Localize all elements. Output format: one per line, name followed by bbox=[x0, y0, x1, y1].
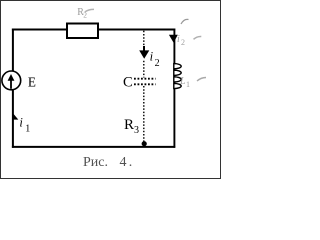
wire bottom bbox=[12, 146, 175, 148]
svg-text:2: 2 bbox=[155, 58, 160, 69]
inductor L (4 half-ellipse bumps on right wire) bbox=[174, 64, 181, 89]
wire left bbox=[12, 29, 14, 148]
svg-text:E: E bbox=[28, 75, 36, 90]
wire branch: dotted segment between i2 arrow and capacitor bbox=[143, 61, 145, 78]
svg-text:3: 3 bbox=[134, 125, 139, 136]
current arrow i1 (on left wire, pointing down) bbox=[13, 114, 18, 120]
annotation curve far top-right bbox=[181, 19, 189, 24]
label i1 bbox=[19, 116, 30, 135]
junction dot (branch meets bottom wire) bbox=[142, 141, 147, 146]
annotation i3 label (faint, right of arrow) bbox=[177, 34, 185, 47]
svg-text:2: 2 bbox=[181, 38, 185, 47]
label i2 bbox=[150, 50, 160, 69]
wire right (inductor branch) bbox=[173, 29, 175, 148]
svg-text:R: R bbox=[124, 117, 134, 133]
svg-text:i: i bbox=[177, 34, 180, 45]
wire top (node A to node B) bbox=[12, 29, 175, 31]
svg-text:i: i bbox=[150, 50, 154, 64]
wire branch C/R3: dotted segment from top wire to i2 arrow bbox=[143, 31, 145, 47]
svg-text:C: C bbox=[123, 75, 133, 91]
current arrow i2 (pointing down) bbox=[139, 46, 149, 59]
annotation L label (faint, right of coil) bbox=[179, 76, 190, 89]
svg-text:Рис.4.: Рис.4. bbox=[83, 155, 132, 170]
current arrow on right wire (pointing down) bbox=[169, 35, 178, 43]
svg-text:1: 1 bbox=[25, 124, 30, 135]
label R2 (gray, above resistor) bbox=[77, 7, 87, 19]
capacitor C (two dotted plates) bbox=[134, 79, 156, 85]
svg-text:i: i bbox=[19, 116, 23, 130]
annotation squiggle right of coil bbox=[197, 78, 206, 82]
wire branch: dotted segment below capacitor to bottom wire bbox=[143, 86, 145, 146]
svg-text:1: 1 bbox=[186, 80, 190, 89]
source E (circle with up arrow, on left wire) bbox=[2, 71, 21, 90]
resistor R2 (box on top wire) bbox=[67, 24, 98, 39]
annotation squiggle near R2 bbox=[85, 9, 94, 12]
svg-text:L: L bbox=[179, 76, 186, 87]
annotation squiggle top-right bbox=[194, 36, 202, 39]
label R3 bbox=[124, 117, 139, 136]
